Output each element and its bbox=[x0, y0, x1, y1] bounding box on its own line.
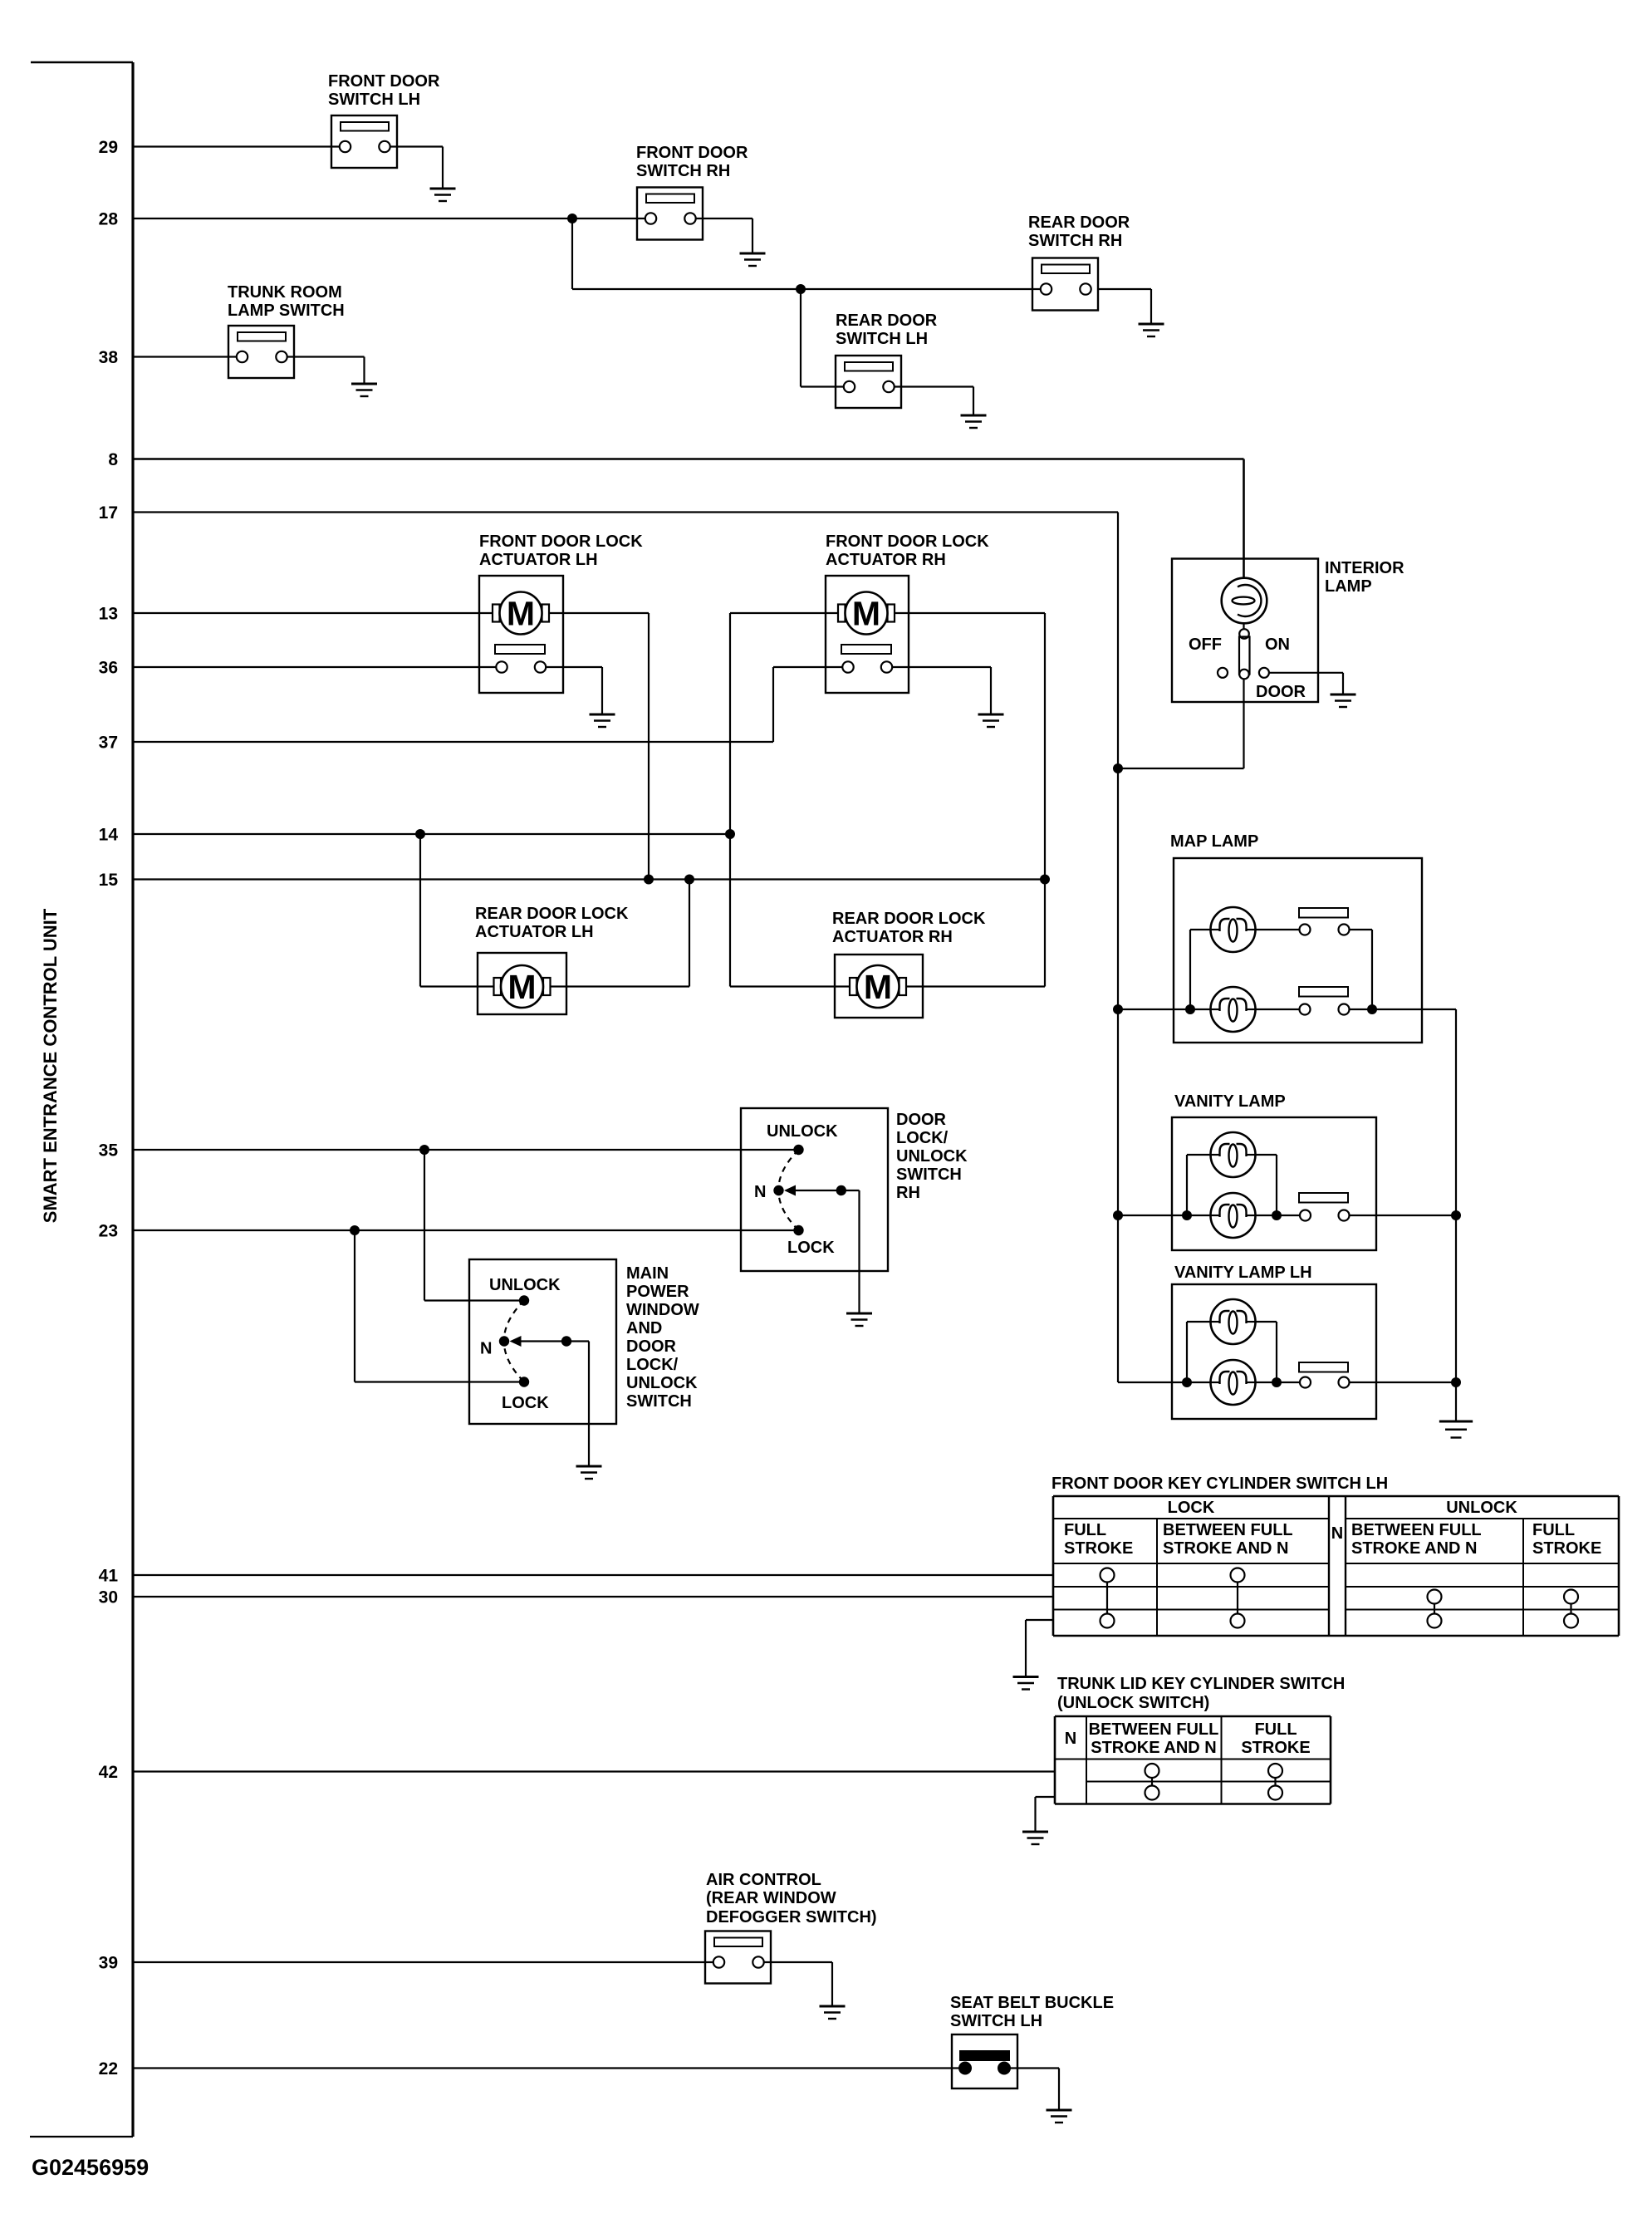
rear door lock actuator RH box bbox=[835, 955, 923, 1018]
key cylinder lock between contacts bbox=[1231, 1568, 1245, 1628]
svg-text:STROKE: STROKE bbox=[1241, 1739, 1310, 1757]
svg-text:LAMP: LAMP bbox=[1325, 577, 1372, 596]
switch RH common arm with arrow bbox=[784, 1185, 841, 1196]
svg-text:STROKE AND N: STROKE AND N bbox=[1091, 1739, 1216, 1757]
wire actuator RH switch to ground bbox=[892, 667, 991, 714]
svg-text:28: 28 bbox=[99, 210, 119, 229]
svg-text:REAR DOOR LOCK: REAR DOOR LOCK bbox=[475, 905, 629, 923]
wire actuator LH motor to wire 15 bbox=[549, 613, 650, 880]
trunk lid full stroke contacts bbox=[1268, 1764, 1282, 1800]
svg-text:TRUNK ROOM: TRUNK ROOM bbox=[228, 283, 342, 302]
svg-text:37: 37 bbox=[99, 734, 118, 753]
pin 29 bbox=[99, 138, 118, 157]
wire pin 28 to front door switch RH bbox=[133, 218, 645, 219]
svg-text:VANITY LAMP: VANITY LAMP bbox=[1174, 1092, 1286, 1111]
wire pin 37 to actuator RH switch bbox=[133, 667, 842, 742]
vanity lamp label bbox=[1174, 1092, 1286, 1111]
ground main power window switch bbox=[576, 1466, 602, 1479]
key cylinder table N header bbox=[1331, 1524, 1343, 1543]
wire pin 30 to key cylinder switch bbox=[133, 1596, 1053, 1598]
svg-text:FULL: FULL bbox=[1532, 1521, 1575, 1539]
wire rear door switch RH to ground bbox=[1097, 289, 1151, 324]
switch RH dashed throw arc bbox=[778, 1150, 798, 1230]
wire main switch common to ground bbox=[566, 1342, 589, 1467]
wire pin 13 to front door lock actuator LH motor bbox=[133, 612, 493, 614]
door lock unlock switch RH box bbox=[741, 1108, 888, 1271]
wire vanity lamp LH output bbox=[1350, 1382, 1457, 1383]
pin 17 bbox=[99, 503, 118, 523]
ground front door switch LH bbox=[430, 189, 456, 201]
pin 23 bbox=[99, 1222, 118, 1241]
vanity lamp box bbox=[1172, 1117, 1376, 1250]
wire 23 branch to main switch LOCK bbox=[355, 1230, 524, 1382]
ground air control bbox=[820, 2006, 846, 2019]
svg-text:G02456959: G02456959 bbox=[32, 2155, 149, 2180]
switch RH LOCK label bbox=[787, 1239, 835, 1257]
svg-text:SWITCH: SWITCH bbox=[626, 1392, 692, 1411]
main switch common contact bbox=[561, 1336, 571, 1346]
svg-text:UNLOCK: UNLOCK bbox=[626, 1374, 698, 1392]
seat belt buckle switch element bbox=[958, 2050, 1011, 2075]
front door switch LH label bbox=[328, 72, 440, 109]
svg-text:STROKE: STROKE bbox=[1064, 1539, 1133, 1558]
pin 22 bbox=[99, 2059, 118, 2078]
svg-text:STROKE AND N: STROKE AND N bbox=[1163, 1539, 1288, 1558]
seat belt buckle switch LH box bbox=[952, 2034, 1017, 2088]
svg-text:SEAT BELT BUCKLE: SEAT BELT BUCKLE bbox=[950, 1994, 1114, 2012]
wire actuator RH motor right to wire 15 and rear actuator RH bbox=[895, 613, 1045, 987]
front door switch LH bbox=[331, 115, 397, 168]
ground rear door switch RH bbox=[1139, 324, 1164, 336]
svg-text:N: N bbox=[1331, 1524, 1343, 1543]
front door lock actuator LH box bbox=[479, 576, 563, 693]
junction wire 14 actuator RH leg bbox=[725, 829, 735, 839]
front door switch RH label bbox=[636, 144, 748, 180]
wire map lamp bottom row bbox=[1118, 1009, 1300, 1010]
junction map lamp left riser bbox=[1185, 1004, 1195, 1014]
svg-text:N: N bbox=[1065, 1730, 1076, 1748]
svg-text:UNLOCK: UNLOCK bbox=[767, 1122, 838, 1141]
svg-text:UNLOCK: UNLOCK bbox=[896, 1147, 968, 1166]
wire pin 15 bbox=[133, 878, 1045, 880]
switch RH UNLOCK label bbox=[767, 1122, 838, 1141]
wire interior lamp return to lamp rail bbox=[1118, 679, 1244, 768]
ground interior lamp bbox=[1331, 694, 1356, 707]
svg-text:M: M bbox=[852, 595, 880, 633]
junction vanity lamp LH right riser bbox=[1272, 1377, 1282, 1387]
svg-text:LOCK/: LOCK/ bbox=[626, 1356, 679, 1374]
svg-text:SWITCH LH: SWITCH LH bbox=[950, 2012, 1042, 2030]
wire pin 38 to trunk room lamp switch bbox=[133, 356, 237, 357]
trunk lid key cylinder switch table frame bbox=[1055, 1716, 1331, 1804]
svg-text:36: 36 bbox=[99, 659, 118, 678]
map lamp switch 1 contacts bbox=[1300, 925, 1350, 935]
svg-text:SMART ENTRANCE CONTROL UNIT: SMART ENTRANCE CONTROL UNIT bbox=[40, 908, 61, 1223]
vanity lamp LH box bbox=[1172, 1284, 1376, 1419]
svg-text:SWITCH LH: SWITCH LH bbox=[836, 330, 928, 348]
svg-text:(UNLOCK SWITCH): (UNLOCK SWITCH) bbox=[1057, 1694, 1209, 1712]
vanity lamp bulb A bbox=[1211, 1132, 1256, 1177]
seat belt buckle switch LH label bbox=[950, 1994, 1114, 2030]
wire actuator RH motor left to wire 14 and rear actuator RH bbox=[730, 613, 838, 987]
junction vanity lamp left riser bbox=[1182, 1210, 1192, 1220]
key cylinder unlock between contacts bbox=[1428, 1590, 1442, 1628]
key cylinder table lock full stroke header bbox=[1064, 1521, 1133, 1558]
key cylinder table lock between header bbox=[1163, 1521, 1293, 1558]
svg-text:FRONT DOOR LOCK: FRONT DOOR LOCK bbox=[826, 533, 989, 551]
trunk room lamp switch bbox=[228, 326, 294, 378]
vanity lamp LH switch contacts bbox=[1300, 1377, 1350, 1388]
wire to rear actuator RH motor bbox=[730, 985, 850, 987]
svg-text:UNLOCK: UNLOCK bbox=[1446, 1499, 1517, 1517]
wire pin 17 to lamp feed rail bbox=[133, 511, 1118, 513]
smart entrance control unit bracket bbox=[30, 62, 133, 2137]
svg-text:FRONT DOOR KEY CYLINDER SWITCH: FRONT DOOR KEY CYLINDER SWITCH LH bbox=[1051, 1475, 1388, 1493]
switch bar front door lock actuator RH bbox=[841, 645, 891, 654]
pin 37 bbox=[99, 734, 118, 753]
ground front door key cylinder switch bbox=[1013, 1677, 1039, 1690]
front door key cylinder switch table frame bbox=[1053, 1496, 1619, 1636]
air control rear window defogger switch bbox=[705, 1931, 771, 1984]
junction wire 15 rear actuator LH leg bbox=[684, 875, 694, 885]
wire pin 41 to key cylinder switch bbox=[133, 1574, 1053, 1576]
svg-text:39: 39 bbox=[99, 1954, 118, 1973]
svg-text:MAIN: MAIN bbox=[626, 1264, 669, 1283]
front door lock actuator LH label bbox=[479, 533, 643, 569]
svg-text:SWITCH RH: SWITCH RH bbox=[636, 162, 730, 180]
pin 38 bbox=[99, 348, 119, 367]
wire switch RH common to ground bbox=[841, 1190, 860, 1313]
motor rear door lock actuator LH bbox=[494, 965, 551, 1008]
switch RH N contact bbox=[773, 1185, 783, 1195]
interior lamp label bbox=[1325, 559, 1404, 596]
svg-text:35: 35 bbox=[99, 1141, 119, 1161]
junction vanity lamp LH left riser bbox=[1182, 1377, 1192, 1387]
interior lamp bulb bbox=[1222, 578, 1267, 624]
key cylinder table LOCK header bbox=[1168, 1499, 1215, 1517]
ground front door lock actuator LH bbox=[590, 714, 615, 727]
interior lamp DOOR contact bbox=[1259, 668, 1269, 678]
svg-text:DEFOGGER SWITCH): DEFOGGER SWITCH) bbox=[706, 1908, 877, 1926]
pin 36 bbox=[99, 659, 118, 678]
junction wire 15 actuator LH leg bbox=[644, 875, 654, 885]
ground lamp rail bbox=[1439, 1421, 1473, 1438]
key cylinder unlock full stroke contacts bbox=[1564, 1590, 1578, 1628]
svg-text:STROKE AND N: STROKE AND N bbox=[1351, 1539, 1477, 1558]
svg-text:REAR DOOR: REAR DOOR bbox=[836, 312, 938, 330]
air control label bbox=[706, 1871, 877, 1926]
junction vanity lamp LH output rail bbox=[1451, 1377, 1461, 1387]
junction interior lamp return bbox=[1113, 763, 1123, 773]
ground front door lock actuator RH bbox=[978, 714, 1004, 727]
vanity lamp risers bbox=[1187, 1155, 1277, 1215]
svg-text:ON: ON bbox=[1265, 636, 1290, 654]
svg-text:N: N bbox=[754, 1183, 766, 1201]
map lamp switch 2 contacts bbox=[1300, 1004, 1350, 1015]
front door key cylinder switch LH title bbox=[1051, 1475, 1388, 1493]
main power window switch box bbox=[469, 1259, 616, 1424]
svg-text:ACTUATOR LH: ACTUATOR LH bbox=[475, 923, 594, 941]
main switch N contact bbox=[499, 1336, 509, 1346]
control unit name: SMART ENTRANCE CONTROL UNIT bbox=[40, 908, 61, 1223]
wire pin 39 to air control switch bbox=[133, 1961, 713, 1963]
vanity lamp switch contacts bbox=[1300, 1210, 1350, 1221]
key cylinder table unlock between header bbox=[1351, 1521, 1482, 1558]
map lamp switch 2 bar bbox=[1299, 987, 1348, 997]
svg-text:29: 29 bbox=[99, 138, 118, 157]
vanity lamp LH bulb B bbox=[1211, 1360, 1256, 1405]
wire pin 36 to actuator LH switch bbox=[133, 666, 496, 668]
svg-text:FULL: FULL bbox=[1064, 1521, 1106, 1539]
svg-text:23: 23 bbox=[99, 1222, 118, 1241]
front door switch RH bbox=[637, 188, 703, 240]
svg-text:WINDOW: WINDOW bbox=[626, 1301, 699, 1319]
wire pin 29 to front door switch LH bbox=[133, 145, 340, 147]
svg-text:DOOR: DOOR bbox=[896, 1111, 947, 1129]
svg-text:SWITCH LH: SWITCH LH bbox=[328, 91, 420, 109]
rear door lock actuator LH label bbox=[475, 905, 629, 941]
ground front door switch RH bbox=[740, 253, 766, 266]
svg-text:SWITCH RH: SWITCH RH bbox=[1028, 232, 1122, 250]
svg-text:LAMP SWITCH: LAMP SWITCH bbox=[228, 302, 345, 320]
svg-text:FRONT DOOR: FRONT DOOR bbox=[328, 72, 440, 91]
interior lamp OFF contact bbox=[1218, 668, 1228, 678]
wire front door switch RH to ground bbox=[696, 218, 752, 253]
switch contacts front door lock actuator LH bbox=[496, 661, 546, 672]
svg-text:AIR CONTROL: AIR CONTROL bbox=[706, 1871, 821, 1889]
svg-text:OFF: OFF bbox=[1189, 636, 1222, 654]
svg-text:M: M bbox=[507, 968, 536, 1006]
wire interior lamp DOOR contact to ground bbox=[1269, 673, 1343, 694]
junction map lamp feed bbox=[1113, 1004, 1123, 1014]
wire map lamp output to ground rail bbox=[1350, 1009, 1457, 1421]
switch contacts front door lock actuator RH bbox=[842, 661, 892, 672]
wire pin 42 to trunk lid key cylinder switch bbox=[133, 1770, 1055, 1772]
vanity lamp LH bulb A bbox=[1211, 1299, 1256, 1344]
svg-text:17: 17 bbox=[99, 503, 118, 523]
junction map lamp right riser bbox=[1367, 1004, 1377, 1014]
svg-text:FULL: FULL bbox=[1254, 1720, 1297, 1739]
switch RH common contact bbox=[836, 1185, 846, 1195]
junction vanity lamp feed bbox=[1113, 1210, 1123, 1220]
pin 30 bbox=[99, 1588, 118, 1607]
switch RH N label bbox=[754, 1183, 766, 1201]
pin 28 bbox=[99, 210, 119, 229]
rear door switch LH bbox=[836, 356, 901, 408]
interior lamp DOOR label bbox=[1256, 683, 1306, 701]
main switch LOCK label bbox=[502, 1394, 549, 1412]
map lamp label bbox=[1170, 832, 1258, 851]
main switch common arm with arrow bbox=[510, 1336, 567, 1347]
trunk lid table between header bbox=[1089, 1720, 1219, 1757]
junction wire 35 to main switch bbox=[419, 1145, 429, 1155]
wire rear door switch LH to ground bbox=[895, 387, 973, 416]
main switch dashed throw arc bbox=[504, 1301, 524, 1382]
svg-text:ACTUATOR RH: ACTUATOR RH bbox=[826, 551, 946, 569]
svg-text:POWER: POWER bbox=[626, 1283, 689, 1301]
svg-text:VANITY LAMP LH: VANITY LAMP LH bbox=[1174, 1264, 1312, 1282]
interior lamp box bbox=[1172, 559, 1318, 703]
map lamp box bbox=[1174, 858, 1422, 1043]
svg-text:SWITCH: SWITCH bbox=[896, 1166, 962, 1184]
map lamp bulb 1 bbox=[1211, 907, 1256, 952]
svg-text:8: 8 bbox=[108, 450, 118, 469]
wire pin 23 to door lock unlock switch RH bbox=[133, 1229, 799, 1231]
main switch UNLOCK contact bbox=[519, 1295, 529, 1305]
svg-text:M: M bbox=[507, 595, 535, 633]
pin 35 bbox=[99, 1141, 119, 1161]
svg-text:MAP LAMP: MAP LAMP bbox=[1170, 832, 1258, 851]
svg-text:STROKE: STROKE bbox=[1532, 1539, 1601, 1558]
trunk lid between contacts bbox=[1145, 1764, 1159, 1800]
svg-text:13: 13 bbox=[99, 605, 118, 624]
svg-text:38: 38 bbox=[99, 348, 119, 367]
figure number G02456959 bbox=[32, 2155, 149, 2180]
svg-text:REAR DOOR LOCK: REAR DOOR LOCK bbox=[832, 910, 986, 928]
svg-text:30: 30 bbox=[99, 1588, 118, 1607]
wire actuator LH switch to ground bbox=[546, 667, 602, 714]
wire vanity lamp output bbox=[1350, 1215, 1457, 1216]
wire map lamp switch 1 to right rail bbox=[1350, 930, 1373, 1009]
main power window switch label bbox=[626, 1264, 699, 1411]
junction wire 23 to main switch bbox=[350, 1225, 360, 1235]
wire branch down to rear door switch LH bbox=[801, 289, 844, 387]
vanity lamp LH label bbox=[1174, 1264, 1312, 1282]
junction wire 15 actuator RH leg bbox=[1040, 875, 1050, 885]
trunk room lamp switch label bbox=[228, 283, 345, 320]
wire trunk lid switch to ground bbox=[1036, 1797, 1056, 1832]
map lamp bulb 2 bbox=[1211, 987, 1256, 1032]
svg-text:BETWEEN FULL: BETWEEN FULL bbox=[1163, 1521, 1293, 1539]
key cylinder table UNLOCK header bbox=[1446, 1499, 1517, 1517]
rear door lock actuator LH box bbox=[478, 953, 566, 1014]
trunk lid key cylinder switch title bbox=[1057, 1675, 1345, 1712]
motor rear door lock actuator RH bbox=[850, 965, 906, 1008]
ground rear door switch LH bbox=[961, 415, 987, 428]
svg-text:UNLOCK: UNLOCK bbox=[489, 1276, 561, 1294]
motor front door lock actuator LH bbox=[493, 592, 549, 635]
svg-text:LOCK: LOCK bbox=[502, 1394, 549, 1412]
wire 28 branch down and right to rear door switches bbox=[572, 218, 1041, 289]
ground trunk lid key cylinder switch bbox=[1022, 1832, 1048, 1844]
pin 15 bbox=[99, 871, 119, 890]
lamp feed rail vertical bbox=[1117, 513, 1119, 1383]
wire vanity lamp row bbox=[1118, 1215, 1300, 1216]
wire air control to ground bbox=[764, 1962, 832, 2006]
junction vanity lamp right riser bbox=[1272, 1210, 1282, 1220]
wire rear actuator LH to wire 15 bbox=[551, 880, 689, 987]
wire pin 8 to interior lamp bbox=[133, 459, 1244, 579]
svg-text:AND: AND bbox=[626, 1319, 662, 1337]
wire vanity lamp LH row bbox=[1118, 1382, 1300, 1383]
main switch UNLOCK label bbox=[489, 1276, 561, 1294]
svg-text:N: N bbox=[480, 1340, 492, 1358]
vanity lamp LH risers bbox=[1187, 1322, 1277, 1382]
front door lock actuator RH box bbox=[826, 576, 909, 693]
pin 42 bbox=[99, 1763, 118, 1782]
key cylinder table unlock full stroke header bbox=[1532, 1521, 1601, 1558]
wire key cylinder switch to ground bbox=[1026, 1620, 1053, 1677]
junction wire 28 branch bbox=[567, 213, 577, 223]
interior lamp switch slider bbox=[1239, 623, 1250, 679]
vanity lamp switch bar bbox=[1299, 1193, 1348, 1203]
wire 35 branch to main switch UNLOCK bbox=[424, 1150, 524, 1301]
main switch LOCK contact bbox=[519, 1377, 529, 1386]
wire front door switch LH to ground bbox=[390, 147, 443, 189]
svg-text:DOOR: DOOR bbox=[1256, 683, 1306, 701]
ground trunk room lamp switch bbox=[351, 384, 377, 396]
svg-text:15: 15 bbox=[99, 871, 119, 890]
ground door lock unlock switch RH bbox=[846, 1313, 872, 1326]
wire trunk room lamp switch to ground bbox=[287, 357, 365, 385]
junction rear door switch LH branch bbox=[796, 284, 806, 294]
motor front door lock actuator RH bbox=[838, 592, 895, 635]
wire rear actuator RH right leg bbox=[907, 985, 1046, 987]
rear door switch RH label bbox=[1028, 213, 1130, 250]
svg-text:41: 41 bbox=[99, 1567, 119, 1586]
svg-text:DOOR: DOOR bbox=[626, 1337, 677, 1356]
door lock unlock switch RH label bbox=[896, 1111, 968, 1202]
trunk lid table full stroke header bbox=[1241, 1720, 1310, 1757]
wire pin 22 to seat belt buckle switch bbox=[133, 2067, 965, 2069]
interior lamp ON label bbox=[1265, 636, 1290, 654]
junction vanity lamp output rail bbox=[1451, 1210, 1461, 1220]
svg-text:REAR DOOR: REAR DOOR bbox=[1028, 213, 1130, 232]
svg-text:14: 14 bbox=[99, 826, 119, 845]
rear door switch RH bbox=[1032, 258, 1098, 311]
pin 39 bbox=[99, 1954, 118, 1973]
svg-text:INTERIOR: INTERIOR bbox=[1325, 559, 1404, 577]
main switch N label bbox=[480, 1340, 492, 1358]
pin 14 bbox=[99, 826, 119, 845]
svg-text:FRONT DOOR LOCK: FRONT DOOR LOCK bbox=[479, 533, 643, 551]
rear door switch LH label bbox=[836, 312, 938, 348]
svg-text:22: 22 bbox=[99, 2059, 118, 2078]
svg-text:ACTUATOR LH: ACTUATOR LH bbox=[479, 551, 598, 569]
interior lamp OFF label bbox=[1189, 636, 1222, 654]
pin 13 bbox=[99, 605, 118, 624]
vanity lamp LH switch bar bbox=[1299, 1362, 1348, 1372]
vanity lamp bulb B bbox=[1211, 1193, 1256, 1238]
switch bar front door lock actuator LH bbox=[495, 645, 545, 654]
svg-text:BETWEEN FULL: BETWEEN FULL bbox=[1089, 1720, 1219, 1739]
svg-text:ACTUATOR RH: ACTUATOR RH bbox=[832, 928, 953, 946]
svg-text:LOCK: LOCK bbox=[787, 1239, 835, 1257]
wire map lamp top row bbox=[1190, 930, 1300, 1009]
switch RH LOCK contact bbox=[793, 1225, 803, 1235]
svg-text:LOCK: LOCK bbox=[1168, 1499, 1215, 1517]
svg-text:TRUNK LID KEY CYLINDER SWITCH: TRUNK LID KEY CYLINDER SWITCH bbox=[1057, 1675, 1345, 1693]
key cylinder lock full stroke contacts bbox=[1101, 1568, 1115, 1628]
wire pin 14 bbox=[133, 833, 730, 835]
svg-text:M: M bbox=[864, 968, 892, 1006]
wire pin 35 to door lock unlock switch RH bbox=[133, 1149, 799, 1151]
ground seat belt buckle switch bbox=[1047, 2110, 1072, 2123]
wire 14 junction to rear actuator LH bbox=[415, 829, 493, 987]
pin 41 bbox=[99, 1567, 119, 1586]
rear door lock actuator RH label bbox=[832, 910, 986, 946]
trunk lid table N header bbox=[1065, 1730, 1076, 1748]
map lamp switch 1 bar bbox=[1299, 908, 1348, 918]
wire seat belt buckle switch to ground bbox=[1004, 2069, 1059, 2111]
pin 8 bbox=[108, 450, 118, 469]
svg-text:42: 42 bbox=[99, 1763, 118, 1782]
switch RH UNLOCK contact bbox=[793, 1145, 803, 1155]
svg-text:FRONT DOOR: FRONT DOOR bbox=[636, 144, 748, 162]
svg-text:BETWEEN FULL: BETWEEN FULL bbox=[1351, 1521, 1482, 1539]
front door lock actuator RH label bbox=[826, 533, 989, 569]
svg-text:(REAR WINDOW: (REAR WINDOW bbox=[706, 1889, 836, 1907]
